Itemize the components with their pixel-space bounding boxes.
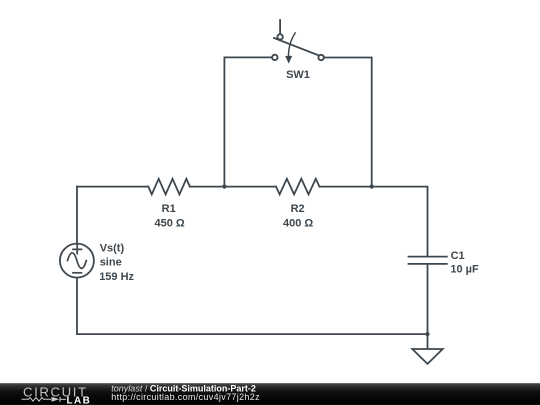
node A junction dot bbox=[222, 185, 226, 189]
CircuitLab logo diode triangle bbox=[52, 397, 60, 402]
svg-text:LAB: LAB bbox=[67, 395, 92, 405]
voltage source sine wave bbox=[68, 253, 87, 269]
svg-text:R2: R2 bbox=[291, 203, 305, 215]
svg-text:450 Ω: 450 Ω bbox=[154, 217, 184, 229]
svg-text:C1: C1 bbox=[451, 250, 465, 262]
wire R1 to R2 through node A bbox=[190, 186, 276, 188]
bottom wire bbox=[77, 333, 428, 335]
svg-text:R1: R1 bbox=[162, 203, 176, 215]
svg-text:10 µF: 10 µF bbox=[450, 263, 479, 275]
voltage source plus sign bbox=[73, 245, 81, 253]
wire from source top corner to R1 bbox=[77, 186, 148, 188]
resistor R2 zigzag bbox=[276, 179, 319, 195]
svg-text:Vs(t): Vs(t) bbox=[100, 243, 125, 255]
svg-text:SW1: SW1 bbox=[286, 69, 310, 81]
capacitor C1 bottom plate bbox=[409, 263, 447, 265]
svg-text:http://circuitlab.com/cuv4jv77: http://circuitlab.com/cuv4jv77j2h2z bbox=[111, 392, 260, 402]
wire R2 to capacitor corner bbox=[319, 187, 427, 256]
CircuitLab logo wire with resistor zigzag bbox=[22, 397, 67, 402]
ground stub bbox=[427, 334, 429, 348]
voltage source V1 circle bbox=[60, 244, 94, 278]
wire left of SW1 with corner down to node A bbox=[224, 57, 271, 186]
ground node junction dot bbox=[425, 332, 429, 336]
svg-text:sine: sine bbox=[100, 256, 122, 268]
switch SW1 throw circle top bbox=[277, 34, 282, 39]
wire capacitor bottom to ground node bbox=[427, 265, 429, 334]
voltage source minus sign bbox=[73, 272, 81, 274]
svg-text:400 Ω: 400 Ω bbox=[283, 217, 313, 229]
capacitor C1 top plate bbox=[409, 256, 447, 258]
wire right of SW1 with corner down to node B bbox=[325, 58, 372, 187]
switch SW1 actuation arrow arc bbox=[289, 33, 296, 56]
switch SW1 terminal circle left bbox=[272, 55, 277, 60]
switch SW1 terminal circle right bbox=[318, 55, 323, 60]
resistor R1 zigzag bbox=[148, 179, 190, 195]
wire left vertical source top bbox=[76, 187, 78, 243]
wire left vertical source bottom bbox=[76, 278, 78, 334]
ground triangle bbox=[412, 349, 442, 364]
switch SW1 arrowhead bbox=[285, 56, 292, 64]
node B junction dot bbox=[370, 185, 374, 189]
switch SW1 top stub wire bbox=[279, 20, 281, 34]
svg-text:159 Hz: 159 Hz bbox=[99, 271, 134, 283]
switch SW1 lever bbox=[274, 38, 319, 56]
